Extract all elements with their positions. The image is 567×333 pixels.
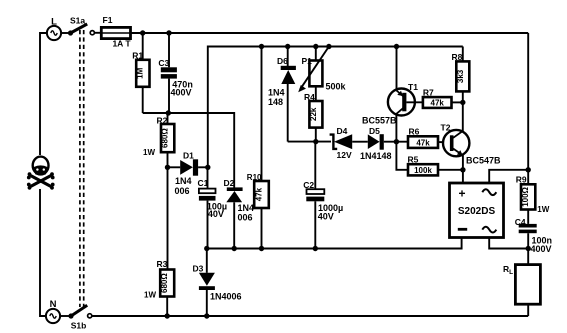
capacitor C1 [199,167,216,248]
junction right column [526,167,531,172]
svg-text:D4: D4 [337,126,348,136]
svg-text:R8: R8 [452,52,463,62]
wire T1 collector to R5 [396,142,408,170]
svg-text:BC557B: BC557B [362,116,397,126]
resistor R8 [456,47,469,132]
svg-text:C2: C2 [303,180,314,190]
svg-text:+: + [458,187,465,201]
capacitor C3 [161,33,177,113]
svg-text:R6: R6 [409,127,420,137]
junction second rail D6 [285,44,290,49]
junction second rail R10 [259,44,264,49]
wire L-left bracket upper [40,33,47,155]
junction common R10 [259,246,264,251]
svg-text:P1: P1 [302,56,313,66]
wire S202DS top-right to right column [489,170,528,183]
resistor R9 [521,184,535,224]
wire right column from top rail [527,33,529,184]
svg-text:47k: 47k [431,99,445,108]
resistor R4 [309,86,322,141]
wire left bracket lower [40,189,46,316]
svg-text:R2: R2 [157,115,168,125]
capacitor C4 [519,224,537,265]
terminal L [47,26,61,40]
svg-text:C3: C3 [158,58,169,68]
svg-text:R7: R7 [423,88,434,98]
switch S1b [68,305,91,318]
junction second rail wiper [326,44,331,49]
wire N to switch S1b [60,315,71,317]
svg-text:D5: D5 [369,126,380,136]
transistor T2 BC547B [443,130,469,183]
label minus [458,228,467,231]
junction common C1/D3 [204,246,209,251]
junction second rail P1 [313,44,318,49]
svg-text:S1b: S1b [71,321,87,331]
svg-text:1N4: 1N4 [175,176,192,186]
diode D1 [168,159,208,175]
svg-text:F1: F1 [103,15,113,25]
svg-text:47k: 47k [416,138,430,147]
svg-text:R4: R4 [304,92,315,102]
junction common C2 [313,246,318,251]
svg-text:D2: D2 [224,178,235,188]
svg-text:100Ω: 100Ω [521,186,530,206]
svg-text:1W: 1W [144,291,156,300]
svg-text:40V: 40V [208,209,224,219]
svg-text:C1: C1 [198,178,209,188]
junction D1 right [205,165,210,170]
junction top rail R1 [140,30,145,35]
svg-text:R5: R5 [408,155,419,165]
svg-text:400V: 400V [171,88,192,98]
solid-state relay S202DS [450,183,504,238]
svg-text:148: 148 [268,97,283,107]
diode D6 [281,47,296,142]
svg-text:1W: 1W [537,205,549,214]
svg-text:12V: 12V [337,150,352,160]
danger skull symbol [27,157,55,190]
svg-text:500k: 500k [326,82,347,92]
svg-text:680Ω: 680Ω [160,273,169,293]
svg-text:40V: 40V [318,211,334,221]
svg-text:R10: R10 [247,173,262,182]
svg-text:D6: D6 [277,56,288,66]
svg-text:1N4: 1N4 [268,88,285,98]
wire D6/R4 node to D4 [288,141,331,143]
wire L to switch S1a [61,32,70,34]
junction bottom D3 [204,313,209,318]
svg-text:47k: 47k [255,187,264,201]
svg-text:L: L [51,17,57,28]
svg-text:R1: R1 [132,50,143,60]
terminal N [46,309,60,323]
wire S202DS minus to common rail [207,238,462,249]
resistor R7 [423,97,463,108]
resistor R2 [161,113,174,270]
capacitor C2 [306,142,324,249]
resistor R1 [136,33,149,113]
wire top rail [131,32,529,34]
mechanical linkage (dashed) [80,30,84,307]
wire second rail [209,46,463,48]
junction D1 left [165,165,170,170]
svg-text:400V: 400V [531,244,552,254]
transistor T1 BC557B [388,47,423,142]
junction C4/RL node [526,246,531,251]
svg-text:N: N [50,299,57,310]
junction second rail T1 emitter [394,44,399,49]
wire R1/C3 bottom node [143,113,235,188]
junction top rail C3 [166,30,171,35]
junction C3/R2 node [166,110,171,115]
sine top right [482,189,496,195]
svg-text:1N4006: 1N4006 [210,292,242,302]
load resistor RL [515,265,540,316]
potentiometer P1 [298,47,329,93]
svg-text:C4: C4 [515,217,526,227]
resistor R10 [254,47,269,249]
junction common D2 [232,246,237,251]
junction R5/T2 emitter [460,167,465,172]
svg-text:1W: 1W [143,148,155,157]
svg-text:T2: T2 [441,123,451,133]
svg-text:22k: 22k [309,107,318,121]
junction T1 collector / D5 [394,139,399,144]
svg-text:D3: D3 [193,264,204,274]
svg-text:D1: D1 [183,151,194,161]
diode D5 [368,134,408,150]
diode D2 [226,187,242,248]
svg-text:S1a: S1a [70,16,85,26]
svg-text:R3: R3 [157,259,168,269]
junction R4/C2 node [313,139,318,144]
zener diode D4 [330,134,368,149]
resistor R6 [408,136,450,148]
svg-text:1M: 1M [136,67,145,78]
resistor R5 [408,164,463,175]
resistor R3 [160,270,174,317]
wire S1a to fuse [94,32,101,34]
svg-text:BC547B: BC547B [466,156,501,166]
switch S1a [68,24,95,36]
wire bottom rail [92,315,528,317]
sine bottom right [482,227,496,233]
svg-text:T1: T1 [408,82,418,92]
fuse F1 [101,27,131,38]
svg-text:006: 006 [238,213,253,223]
svg-text:680Ω: 680Ω [161,128,170,148]
svg-text:006: 006 [175,186,190,196]
svg-text:1N4: 1N4 [238,203,255,213]
svg-text:100k: 100k [414,166,432,175]
junction bottom R3 [165,313,170,318]
diode D3 [199,249,215,317]
svg-text:1N4148: 1N4148 [360,151,392,161]
junction R7/R8 [460,100,465,105]
svg-text:R9: R9 [516,175,527,185]
wire S202DS bottom-right to C4 node [489,238,528,249]
wire DC rail riser [208,47,209,168]
svg-text:3k3: 3k3 [456,69,465,83]
svg-text:S202DS: S202DS [458,206,496,217]
svg-text:1A T: 1A T [112,39,131,49]
